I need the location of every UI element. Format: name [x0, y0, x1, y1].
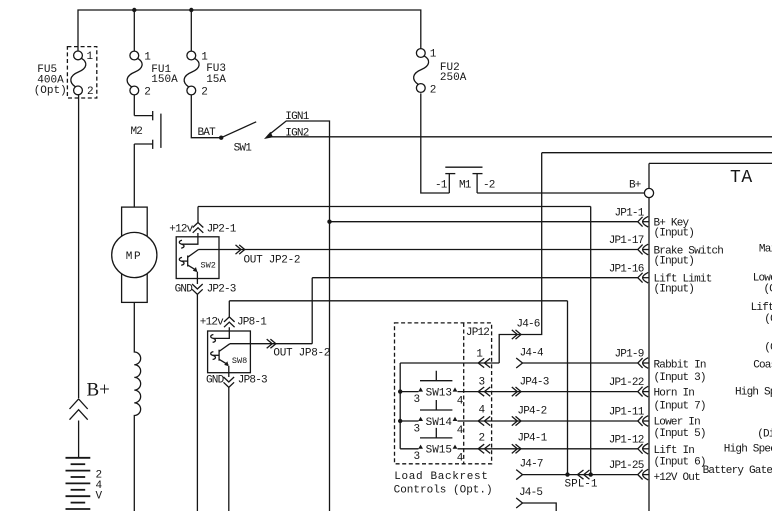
svg-text:JP1-25: JP1-25	[609, 460, 644, 472]
svg-text:-1: -1	[435, 179, 448, 191]
svg-text:(Digit: (Digit	[757, 429, 772, 441]
svg-text:B+: B+	[87, 379, 110, 400]
svg-text:-2: -2	[483, 179, 495, 191]
svg-text:MP: MP	[126, 251, 142, 263]
svg-text:JP8-3: JP8-3	[238, 375, 267, 387]
svg-text:1: 1	[476, 348, 483, 360]
svg-text:JP4-1: JP4-1	[517, 433, 547, 445]
svg-text:2: 2	[430, 85, 437, 97]
svg-text:OUT JP8-2: OUT JP8-2	[273, 348, 330, 360]
svg-text:(Input): (Input)	[654, 256, 695, 268]
svg-text:BAT: BAT	[198, 127, 217, 139]
svg-text:(Input): (Input)	[654, 228, 695, 240]
svg-text:+12V Out: +12V Out	[654, 472, 701, 484]
svg-text:Horn In: Horn In	[654, 388, 695, 400]
svg-text:15A: 15A	[206, 74, 226, 86]
svg-text:150A: 150A	[151, 74, 178, 86]
svg-text:JP1-17: JP1-17	[609, 235, 644, 247]
svg-text:J4-7: J4-7	[520, 459, 543, 471]
svg-text:Coast: Coast	[753, 359, 772, 371]
svg-text:4: 4	[457, 395, 464, 407]
svg-text:(Outpu: (Outpu	[764, 342, 772, 354]
svg-text:(Outpu: (Outpu	[764, 283, 772, 295]
svg-text:3: 3	[414, 394, 421, 406]
svg-text:M2: M2	[131, 126, 143, 138]
svg-text:JP4-2: JP4-2	[517, 406, 546, 418]
svg-text:SW14: SW14	[426, 417, 453, 429]
svg-text:JP1-16: JP1-16	[609, 263, 644, 275]
svg-text:1: 1	[430, 48, 437, 60]
svg-text:JP1-9: JP1-9	[614, 349, 643, 361]
svg-text:SW1: SW1	[234, 143, 253, 155]
svg-text:JP1-12: JP1-12	[609, 434, 644, 446]
svg-text:+12v: +12v	[200, 317, 224, 329]
svg-text:4: 4	[457, 425, 464, 437]
svg-text:Lift Out: Lift Out	[751, 302, 772, 314]
svg-text:1: 1	[144, 51, 151, 63]
svg-text:4: 4	[457, 453, 464, 465]
svg-text:(Input 6): (Input 6)	[654, 456, 706, 468]
svg-text:3: 3	[414, 451, 421, 463]
svg-text:JP2-3: JP2-3	[207, 284, 236, 296]
svg-text:JP2-1: JP2-1	[207, 223, 237, 235]
svg-text:OUT JP2-2: OUT JP2-2	[244, 255, 301, 267]
svg-text:J4-4: J4-4	[520, 348, 544, 360]
svg-text:1: 1	[87, 51, 94, 63]
svg-text:(Outpu: (Outpu	[764, 313, 772, 325]
svg-text:JP8-1: JP8-1	[237, 317, 267, 329]
svg-text:(Opt): (Opt)	[34, 85, 67, 97]
svg-text:(Input 5): (Input 5)	[654, 428, 706, 440]
svg-text:JP1-1: JP1-1	[614, 207, 644, 219]
svg-text:Main Co: Main Co	[759, 244, 772, 256]
svg-text:Load Backrest: Load Backrest	[394, 471, 488, 483]
svg-text:B+: B+	[629, 179, 641, 191]
svg-text:1: 1	[201, 51, 208, 63]
svg-text:JP1-22: JP1-22	[609, 377, 644, 389]
svg-text:SW15: SW15	[426, 445, 452, 457]
svg-text:GND: GND	[175, 284, 194, 296]
svg-text:2: 2	[201, 86, 208, 98]
svg-text:Lower In: Lower In	[654, 417, 701, 429]
svg-text:SPL-1: SPL-1	[565, 478, 598, 490]
svg-text:Rabbit In: Rabbit In	[654, 359, 706, 371]
svg-text:+12v: +12v	[169, 223, 193, 235]
svg-text:2: 2	[87, 86, 94, 98]
svg-text:J4-6: J4-6	[516, 319, 539, 331]
svg-text:3: 3	[414, 423, 421, 435]
svg-text:Lift In: Lift In	[654, 445, 695, 457]
svg-text:250A: 250A	[440, 72, 467, 84]
svg-text:SW13: SW13	[426, 387, 452, 399]
svg-text:IGN1: IGN1	[285, 111, 309, 123]
svg-text:High Spe: High Spe	[735, 387, 772, 399]
svg-text:High Speed: High Speed	[724, 443, 772, 455]
svg-text:3: 3	[479, 376, 486, 388]
svg-text:2: 2	[144, 86, 151, 98]
svg-text:M1: M1	[459, 179, 472, 191]
svg-text:Controls (Opt.): Controls (Opt.)	[394, 484, 493, 496]
svg-text:IGN2: IGN2	[285, 128, 308, 140]
svg-text:Battery Gate: Battery Gate	[703, 465, 772, 477]
svg-text:(Input): (Input)	[654, 284, 695, 296]
svg-text:4: 4	[479, 404, 486, 416]
svg-text:JP1-11: JP1-11	[609, 407, 645, 419]
svg-text:(Input 7): (Input 7)	[654, 400, 706, 412]
svg-text:SW2: SW2	[201, 261, 216, 271]
svg-text:V: V	[96, 491, 103, 503]
svg-text:JP12: JP12	[466, 327, 489, 339]
svg-text:2: 2	[479, 432, 486, 444]
svg-text:JP4-3: JP4-3	[520, 377, 549, 389]
svg-text:SW8: SW8	[232, 356, 247, 366]
svg-text:(Input 3): (Input 3)	[654, 372, 706, 384]
svg-text:J4-5: J4-5	[519, 487, 542, 499]
svg-text:GND: GND	[206, 375, 225, 387]
svg-text:TA: TA	[730, 168, 753, 188]
